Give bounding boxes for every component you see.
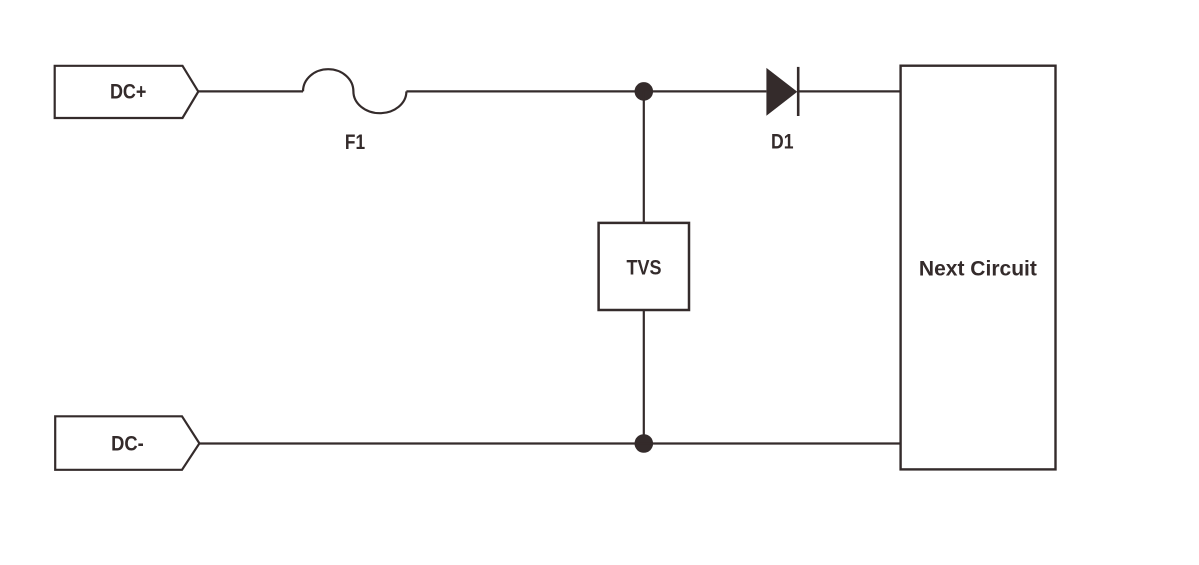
wire DC- to node B to Next Circuit box — [199, 442, 900, 444]
wire node A down to TVS — [643, 91, 645, 223]
fuse F1 — [303, 69, 406, 113]
wire diode to Next Circuit box — [798, 90, 900, 92]
connector DC+ — [55, 66, 199, 118]
svg-text:TVS: TVS — [627, 256, 662, 279]
svg-text:DC-: DC- — [111, 433, 144, 456]
svg-text:DC+: DC+ — [110, 80, 147, 103]
node A (top junction) — [635, 82, 654, 101]
svg-text:Next Circuit: Next Circuit — [919, 258, 1037, 281]
box TVS — [599, 223, 689, 310]
svg-text:F1: F1 — [345, 131, 365, 154]
box Next Circuit — [901, 66, 1056, 470]
wire node A to diode — [644, 90, 767, 92]
wire fuse to node A — [406, 90, 643, 92]
wire TVS down to node B — [643, 310, 645, 444]
svg-text:D1: D1 — [771, 131, 794, 154]
wire DC+ to fuse — [198, 90, 303, 92]
node B (bottom junction) — [635, 434, 654, 453]
connector DC- — [55, 416, 199, 470]
diode D1 cathode bar — [797, 67, 800, 116]
diode D1 — [766, 68, 797, 116]
